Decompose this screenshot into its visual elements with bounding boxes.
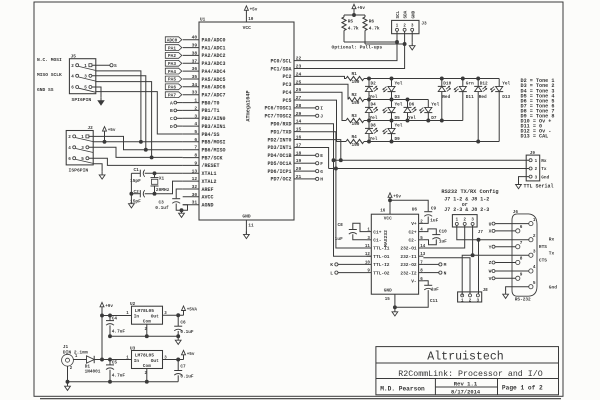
svg-text:V+: V+ [411,221,417,227]
U6 pin 11 TTL-I1 [365,245,390,252]
U2 Com pin wire [146,324,148,336]
svg-text:U1: U1 [200,18,206,23]
J5 pin 5 [84,86,92,91]
node D [170,124,183,130]
junction LED grid [368,77,371,80]
IC U2 LM78L05 [126,302,167,332]
wire LED column D11 [462,79,464,121]
connector J5 SPI6PIN body [69,55,95,104]
J8 pin 1 [461,294,464,304]
J5 crossover mark [79,77,96,81]
svg-text:TTL Serial: TTL Serial [524,184,554,190]
LED D10 Red [438,81,452,100]
svg-text:PC1/SDA: PC1/SDA [270,66,291,72]
svg-text:32: 32 [192,184,198,190]
svg-text:J9: J9 [530,151,536,156]
svg-text:Red: Red [442,95,450,100]
svg-text:232-I1: 232-I1 [400,254,417,260]
svg-text:J7 2-3 & J8 2-3: J7 2-3 & J8 2-3 [444,207,489,213]
net flag PA6 [165,84,182,91]
U1 GND pin 11 wire [246,220,254,234]
title block frame [376,347,559,395]
svg-text:D7: D7 [431,116,437,121]
wire J2 pin5 RESET to U1 /RESET [89,158,183,165]
svg-text:D4: D4 [371,102,377,107]
svg-text:C10: C10 [439,229,447,234]
wire J7 pin1 to DB9 pin2 line [457,225,530,239]
U1 pin 33 PA7/ADC7 stub [183,90,226,99]
svg-text:3: 3 [533,249,536,254]
wire LED column D10 [441,79,443,121]
node J [301,114,324,120]
svg-text:11: 11 [248,223,254,228]
svg-text:10: 10 [248,17,254,22]
svg-text:GND: GND [242,214,251,220]
wire Rx line to J9 [334,159,530,161]
svg-text:1uF: 1uF [431,287,439,292]
+5VA supply [182,306,198,315]
+5v supply at J2 [103,127,116,142]
svg-text:R2: R2 [352,93,358,98]
U1 VCC pin 10 wire and +5v [244,6,257,22]
wire C2- to C10 bottom [423,239,436,244]
wire 232-I1 to J8 pin2 [423,258,470,294]
svg-text:R6: R6 [369,19,375,24]
J8 pin 3 [476,294,479,304]
U1 pin 39 PA1/ADC1 stub [183,43,226,52]
svg-text:MISO SCLK: MISO SCLK [37,72,62,78]
svg-text:Altruistech: Altruistech [427,351,504,364]
U1 pin 37 PA3/ADC3 stub [183,58,226,67]
svg-text:+5v: +5v [187,352,195,357]
node M [423,262,446,268]
svg-text:7: 7 [194,145,197,151]
svg-text:PC6/TOSC1: PC6/TOSC1 [264,106,291,112]
U1 pin 32 AREF stub [183,184,214,193]
svg-text:PA3: PA3 [168,62,176,67]
wire J2 VCC row to U1 PB5 [93,141,183,143]
J5 left pin labels text [37,57,62,93]
wire C2 left to rail [131,193,140,195]
wire AREF to C3 [176,189,183,198]
U1 pin 34 PA6/ADC6 stub [183,82,226,91]
node A [170,100,183,106]
connector J7 body [452,215,483,236]
svg-text:TTL-I1: TTL-I1 [373,246,390,252]
bottom ground rail [68,381,179,383]
svg-text:2: 2 [70,367,73,371]
wire J3 pin1 to PC0/SCL [301,31,398,60]
svg-text:Rx: Rx [549,237,555,243]
svg-text:5: 5 [194,129,197,135]
capacitor C5 [106,361,125,379]
U1 pin 28 PC6/TOSC1 stub [264,103,301,112]
node X [489,229,516,235]
wire PC5 to R4 [301,100,347,141]
J5 pin 2 [71,64,79,69]
svg-text:30: 30 [192,192,198,198]
U1 pin 21 PD7/OC2 stub [270,174,301,183]
svg-text:4.7uF: 4.7uF [112,374,126,379]
net flag PA3 [165,60,182,67]
U6 pin 2 V+ [411,220,423,227]
wire PC2 to R1 [301,76,347,78]
U1 pin 8 PB7/SCK stub [183,153,223,162]
wire XTAL2 jog [145,181,183,194]
wire AGND jog [182,205,188,211]
svg-text:+9v: +9v [105,304,113,309]
junction C4 bottom [109,335,112,338]
J2 pin 6 [68,157,76,162]
J5 crossover mark [79,88,96,92]
title company name [427,351,504,364]
svg-text:39: 39 [192,43,198,49]
svg-text:1: 1 [533,218,536,223]
wire C11 bottom [427,290,429,298]
svg-text:SCL: SCL [396,10,401,18]
svg-text:PD5/OC1A: PD5/OC1A [267,161,291,167]
node S no-connect at J5 pin 1 [92,63,117,69]
text jumper option 2 [444,207,489,213]
junction U2 com [145,335,148,338]
J8 pin 2 [469,294,472,304]
svg-text:2: 2 [68,135,71,140]
wire R6 to SDA [365,43,405,45]
junction LED grid [368,140,371,143]
svg-text:1uF: 1uF [335,237,343,242]
+9v supply [100,302,113,359]
junction LED grid [461,77,464,80]
wire J2 pin6 to ground [93,164,102,172]
svg-text:9: 9 [194,160,197,166]
node H [301,177,324,183]
U1 pin 14 PD0/RXD stub [270,119,301,128]
title revision [454,381,478,388]
U1 pin 30 AVCC stub [183,192,214,201]
svg-text:16: 16 [380,210,386,214]
J2 pin 4 [68,146,76,151]
svg-text:C9: C9 [431,206,437,211]
svg-text:Yel: Yel [370,116,378,121]
J6 pin 1 [529,218,536,226]
svg-text:Y: Y [489,244,492,250]
U6 pin 8 232-I2 [400,270,423,277]
svg-text:G: G [320,169,323,175]
wire J5 MISO to U1 PB6 [92,76,146,150]
junction AGND [180,209,183,212]
svg-text:9: 9 [520,273,523,278]
J6 pin 3 [529,249,536,257]
node N [423,270,446,276]
svg-text:40: 40 [192,35,198,41]
junction LED grid [406,119,409,122]
U1 pin 31 AGND stub [183,200,214,209]
LED D2 Yel [365,81,378,100]
svg-text:Yel: Yel [370,95,378,100]
AGND ground symbol [179,210,185,217]
U1 pin 6 PB5/MOSI stub [183,137,226,146]
svg-text:SDA: SDA [404,10,409,18]
wire C9 bottom to V+ [423,217,428,224]
svg-text:Yel: Yel [431,102,439,107]
LED D8 Yel [365,123,378,142]
svg-text:11: 11 [365,245,371,249]
svg-text:D13 = CAL: D13 = CAL [521,134,549,140]
U1 pin 29 PC7/TOSC2 stub [264,111,301,120]
resistor R3 [346,114,364,127]
svg-text:+5VA: +5VA [187,308,198,313]
wire PD0/RXD down to MAX232 TTL-O1 [301,124,372,256]
wire C5 leads [109,360,111,382]
svg-text:Rx: Rx [541,159,547,164]
wire +9v to U2 In [102,315,132,317]
junction C4 top [109,314,112,317]
LED D7 Yel [420,102,440,121]
wire J5 pin5 to ground [92,87,101,98]
junction LED grid [477,77,480,80]
svg-text:15: 15 [385,298,391,302]
J7 pin 2 [463,219,466,226]
svg-text:GND SS: GND SS [37,87,54,93]
text TTL Serial [524,184,554,190]
junction J1 ground [66,380,69,383]
J6 pin 2 [529,234,536,242]
svg-text:0.1uF: 0.1uF [180,330,194,335]
wire Tx line to J9 [329,168,529,170]
svg-text:PA2/ADC2: PA2/ADC2 [202,53,226,59]
svg-text:PC5: PC5 [282,98,291,104]
svg-text:M.D. Pearson: M.D. Pearson [380,386,425,393]
capacitor C7 [174,365,194,380]
svg-text:J8: J8 [483,288,489,293]
LED D9 Yel [383,123,403,142]
junction LED grid [440,77,443,80]
wire LED column D13 [498,79,500,142]
+5v supply from U3 [182,350,195,359]
svg-text:VCC: VCC [384,217,392,222]
U1 pin 5 PB4/SS stub [183,129,220,138]
svg-text:D8: D8 [371,123,377,128]
svg-text:C: C [170,116,173,122]
svg-text:R4: R4 [352,135,358,140]
svg-text:C1+: C1+ [373,229,381,235]
net flag PA2 [165,53,182,60]
svg-text:Out: Out [151,314,159,320]
U1 pin 25 PC3 stub [282,79,301,88]
svg-text:R1: R1 [352,72,358,77]
svg-text:VCC: VCC [243,25,252,31]
junction C5 top [109,358,112,361]
U6 pin 10 TTL-I2 [365,261,390,268]
svg-text:J2: J2 [88,126,94,131]
U1 pin 36 PA4/ADC4 stub [183,66,226,75]
svg-text:X1: X1 [159,176,165,181]
svg-text:+5v: +5v [393,194,401,199]
svg-text:Yel: Yel [395,81,403,86]
svg-text:D5: D5 [395,116,401,121]
svg-text:L: L [330,270,333,276]
net flag PA4 [165,68,182,75]
svg-text:AREF: AREF [202,187,214,193]
svg-text:B: B [170,108,173,114]
junction pullup rail [353,14,356,17]
U1 pin 2 PB1/T1 stub [183,105,220,114]
svg-text:3: 3 [535,176,538,180]
svg-text:PB6/MISO: PB6/MISO [202,148,226,154]
svg-text:1N4001: 1N4001 [85,370,101,375]
svg-text:Optional: Pull-ups: Optional: Pull-ups [332,45,383,51]
U1 pin 12 XTAL2 stub [183,176,217,185]
U1 pin 1 PB0/T0 stub [183,98,220,107]
svg-text:2: 2 [71,64,74,69]
svg-text:PA5: PA5 [168,78,176,83]
U6 pin 13 232-I1 [400,253,425,260]
wire XTAL1 line [145,172,183,174]
svg-text:232-O2: 232-O2 [400,262,417,268]
J6 pin 6 [516,225,523,233]
LED row rail 4 [364,141,499,143]
svg-text:/RESET: /RESET [202,163,220,169]
wire DB9 pin3 line from J8-1 [462,255,529,295]
svg-text:8: 8 [194,153,197,159]
capacitor C3 [155,199,180,211]
svg-text:N: N [444,270,447,276]
svg-text:J1: J1 [63,345,69,350]
wire J5 SCLK to U1 PB7 [95,82,151,158]
svg-text:150: 150 [352,80,360,85]
U6 pin 5 C2- [408,237,423,244]
U6 pin 3 C1- [367,237,382,244]
svg-text:Tx: Tx [541,167,547,172]
svg-text:37: 37 [192,58,198,64]
node W [489,269,529,275]
svg-text:PC0/SCL: PC0/SCL [270,58,291,64]
wire J8 pin3 riser [478,240,480,294]
svg-text:XTAL1: XTAL1 [202,171,217,177]
wire J3 pin3 to ground [411,31,413,42]
J2 crossover mark [76,149,94,153]
resistor R6 [363,15,380,44]
svg-text:PB3/AIN1: PB3/AIN1 [202,124,226,130]
U1 pin 18 PD4/OC1B stub [267,150,301,159]
svg-text:Rev 1.1: Rev 1.1 [454,381,478,388]
svg-text:1: 1 [75,355,78,359]
junction SCLK [150,156,153,159]
svg-text:33: 33 [192,90,198,96]
svg-text:Yel: Yel [370,137,378,142]
wire LED column D7 [427,100,429,121]
svg-text:6: 6 [194,137,197,143]
wire J2 pin3 SCK to U1 PB7 [89,147,183,157]
node G [301,169,324,175]
wire ground rail to C11 [395,299,428,308]
junction LED grid [368,119,371,122]
svg-text:D3: D3 [395,95,401,100]
svg-text:PA7: PA7 [168,93,176,98]
wire U3 Out [163,359,184,361]
svg-text:PA1: PA1 [168,46,176,51]
junction J7-3 DB9-3 [471,254,474,257]
wire C1 left to rail [131,172,140,174]
junction C6 top [177,314,180,317]
junction LED grid [390,119,393,122]
resistor R1 [346,72,364,85]
svg-text:J7: J7 [478,230,484,235]
svg-text:AVCC: AVCC [202,195,214,201]
svg-text:Com: Com [143,363,151,369]
wire VCC branch to C9 [390,200,428,211]
IC U6 MAX232 body [371,208,418,295]
svg-text:6: 6 [71,86,74,91]
LED D11 Grn [454,81,474,100]
svg-text:1: 1 [535,160,538,164]
U1 pin 4 PB3/AIN1 stub [183,121,226,130]
J6 pin 8 [516,257,523,265]
svg-text:PB4/SS: PB4/SS [202,132,220,138]
text DB9 signal labels [539,237,557,291]
svg-text:150: 150 [352,143,360,148]
svg-text:PB2/AIN0: PB2/AIN0 [202,116,226,122]
svg-text:CTS: CTS [539,257,547,263]
svg-text:6: 6 [520,225,523,230]
svg-text:R2CommLink: Processor and I/O: R2CommLink: Processor and I/O [398,369,542,379]
U1 pin 24 PC2 stub [282,71,301,80]
resistor R4 [346,135,364,148]
capacitor C11 [424,285,439,304]
node E [301,153,324,159]
J3 ground symbol [409,43,415,50]
title date [451,389,481,395]
+5v supply for pull-ups [352,4,365,15]
svg-text:PD6/ICP1: PD6/ICP1 [267,169,291,175]
U2 rail ground symbol [175,337,181,344]
connector J8 body [458,288,489,302]
U1 pin 19 PD5/OC1A stub [267,158,301,167]
capacitor C6 [174,320,194,335]
capacitor C1 [130,168,145,184]
svg-text:2: 2 [533,234,536,239]
capacitor C8 [335,223,357,242]
svg-text:4.7k: 4.7k [369,26,380,32]
J6 pin 4 [529,265,536,273]
svg-text:U2: U2 [130,302,136,307]
U1 pin 15 PD1/TXD stub [270,127,301,136]
J7 pin 3 [471,219,474,226]
U1 pin 35 PA5/ADC5 stub [183,74,226,83]
svg-text:Yel: Yel [395,102,403,107]
wire PD3/INT1 to Tx net [301,148,329,169]
junction SCL pullup [396,41,399,44]
svg-text:Grn: Grn [466,81,474,86]
J2 crossover mark [76,138,94,142]
J1 ground symbol [65,383,71,390]
wire LED column D2/D4/D8 [368,79,370,142]
svg-text:7: 7 [520,241,523,246]
junction C5 bottom [109,380,112,383]
U6 pin 4 C2+ [408,229,423,236]
junction LED grid [390,77,393,80]
svg-text:TTL-I2: TTL-I2 [373,262,390,268]
svg-text:Yel: Yel [408,116,416,121]
J5 pin 6 [71,86,79,91]
svg-text:PA7/ADC7: PA7/ADC7 [202,93,226,99]
svg-text:5: 5 [533,281,536,286]
svg-text:PD4/OC1B: PD4/OC1B [267,153,291,159]
svg-text:C2: C2 [134,190,140,195]
node B [170,108,183,114]
svg-text:S: S [114,63,117,69]
svg-text:C1-: C1- [373,238,381,244]
